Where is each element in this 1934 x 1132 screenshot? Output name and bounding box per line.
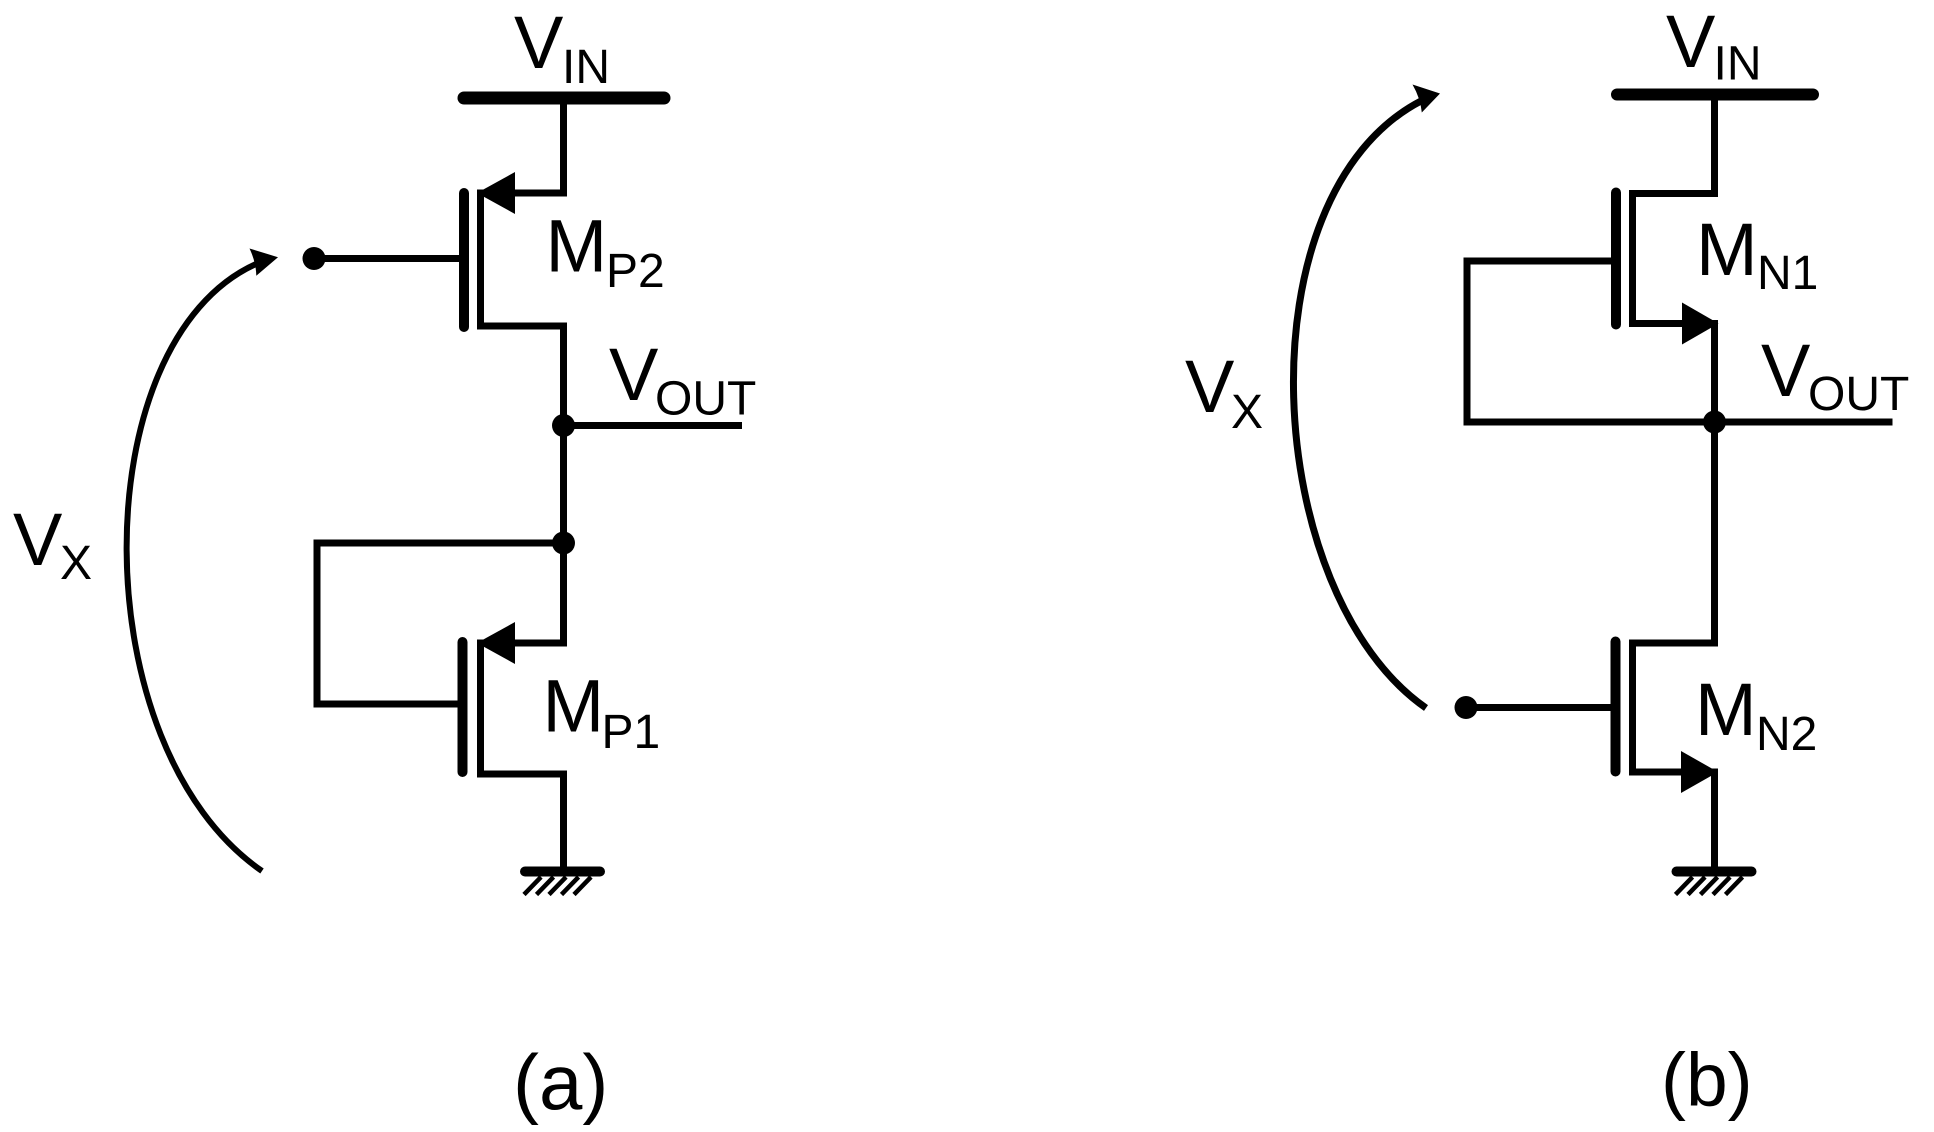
svg-text:N2: N2	[1756, 708, 1817, 761]
svg-text:V: V	[514, 1, 564, 84]
svg-text:P1: P1	[602, 706, 661, 759]
svg-text:IN: IN	[562, 41, 610, 94]
transistor MP2 source arrow (points left into channel)	[477, 172, 515, 214]
VX arc arrowhead (a)	[250, 249, 279, 276]
node VIN supply bar (a)	[464, 92, 664, 105]
transistor MP1 source arrow (points left into channel)	[477, 622, 515, 664]
transistor MP1 gate bar	[458, 642, 468, 772]
svg-text:P2: P2	[606, 245, 665, 298]
transistor MN1 channel	[1629, 190, 1636, 327]
node input terminal dot (a)	[303, 247, 326, 270]
wire: MP1 drain stub down to ground	[480, 774, 564, 871]
VX measurement arc (b)	[1293, 101, 1426, 708]
svg-text:N1: N1	[1757, 247, 1818, 300]
wire: MP2 gate lead	[314, 255, 459, 262]
ground bar (a)	[525, 867, 600, 877]
svg-text:IN: IN	[1714, 38, 1762, 91]
wire: MN2 gate lead	[1466, 704, 1611, 711]
svg-text:M: M	[1695, 668, 1757, 751]
transistor MN2 source arrow (points right away from channel)	[1681, 751, 1718, 793]
svg-text:V: V	[609, 333, 659, 416]
wire: MP2 drain stub down through VOUT node to MP1 source stub	[480, 326, 564, 643]
svg-text:V: V	[13, 498, 63, 581]
node VIN supply bar (b)	[1617, 89, 1813, 101]
svg-text:V: V	[1185, 345, 1235, 428]
wire: VIN rail down to MN1 drain stub	[1633, 95, 1715, 194]
ground bar (b)	[1677, 867, 1752, 877]
ground hatch (b)	[1676, 877, 1743, 895]
svg-text:X: X	[1231, 386, 1263, 439]
transistor MN2 gate bar	[1611, 642, 1621, 772]
svg-text:X: X	[60, 537, 92, 590]
svg-text:M: M	[546, 205, 608, 288]
svg-text:(b): (b)	[1661, 1038, 1753, 1122]
node VOUT junction dot (a)	[552, 414, 575, 437]
wire: MN2 source stub down to ground	[1633, 772, 1715, 871]
svg-text:(a): (a)	[513, 1038, 608, 1126]
wire: MN1 gate feedback loop to VOUT node	[1467, 261, 1715, 422]
wire: MP1 gate feedback loop	[317, 543, 564, 704]
VX measurement arc (a)	[127, 264, 262, 871]
svg-text:M: M	[1696, 208, 1758, 291]
svg-text:OUT: OUT	[655, 373, 756, 426]
node input terminal dot (b)	[1455, 696, 1478, 719]
wire: VIN rail down to MP2 source stub	[480, 98, 564, 193]
transistor MN1 gate bar	[1611, 193, 1621, 325]
wire: MN1 source stub and rail down through VOUT node to MN2 drain stub	[1633, 324, 1715, 644]
node gate feedback junction dot (a)	[552, 532, 575, 555]
VX arc arrowhead (b)	[1413, 85, 1441, 113]
transistor MP1 channel	[477, 640, 484, 778]
svg-text:V: V	[1761, 329, 1811, 412]
svg-text:M: M	[543, 665, 605, 748]
transistor MN2 channel	[1629, 640, 1636, 776]
ground hatch (a)	[524, 877, 591, 895]
wire VOUT (b)	[1715, 419, 1893, 426]
svg-text:V: V	[1666, 0, 1716, 83]
svg-text:OUT: OUT	[1808, 368, 1909, 421]
transistor MP2 channel	[477, 190, 484, 330]
transistor MN1 source arrow (points right away from channel)	[1682, 303, 1719, 345]
wire VOUT (a)	[564, 422, 743, 429]
node VOUT junction dot (b)	[1703, 411, 1726, 434]
transistor MP2 gate bar	[459, 193, 469, 327]
